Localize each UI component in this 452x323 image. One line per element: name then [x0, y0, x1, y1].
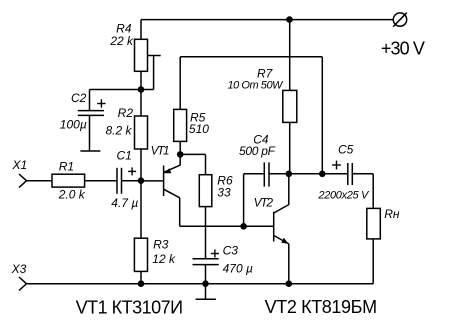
label R2 value — [105, 106, 133, 138]
capacitor C5 — [348, 163, 353, 185]
svg-text:VT2 КТ819БМ: VT2 КТ819БМ — [265, 297, 378, 317]
label R5 value — [189, 110, 209, 136]
svg-text:X3: X3 — [11, 262, 27, 276]
transistor VT2 (NPN) base bar — [273, 212, 275, 242]
label R4 value — [109, 21, 134, 48]
caption VT1 type — [76, 297, 184, 317]
wire C5 to Rn — [352, 174, 373, 209]
svg-text:VT2: VT2 — [254, 195, 274, 209]
wire R5 bottom lead — [179, 141, 181, 154]
wire C4 branch — [244, 174, 265, 227]
svg-text:4.7 µ: 4.7 µ — [111, 196, 138, 210]
capacitor C3 — [193, 259, 219, 265]
label X3 — [11, 262, 27, 276]
node junction VT1 collector/C4/VT2 base — [240, 223, 247, 230]
svg-text:500 pF: 500 pF — [239, 144, 276, 158]
svg-text:470 µ: 470 µ — [223, 261, 253, 275]
wire R6 bottom lead — [205, 207, 207, 259]
wire R7 top lead — [289, 20, 291, 91]
wire R2 top lead — [140, 90, 142, 117]
wire C2 branch — [90, 90, 142, 111]
terminal X3 input — [19, 277, 27, 291]
svg-text:510: 510 — [189, 122, 209, 136]
resistor R7 — [283, 90, 297, 122]
wire VT2 base — [244, 225, 274, 227]
transistor VT2 emitter arrow — [281, 238, 288, 244]
wire R3 bottom lead — [140, 271, 142, 283]
transistor VT2 emitter lead — [274, 235, 289, 283]
wire output node line — [289, 173, 348, 175]
resistor R1 — [52, 174, 85, 187]
node junction R7/VT2 collector on output line — [286, 171, 293, 178]
wire VT1 collector to VT2 base — [180, 198, 244, 227]
svg-text:R2: R2 — [118, 106, 134, 120]
label C1 value — [111, 148, 138, 210]
node junction R7 top on +30V rail — [286, 16, 293, 23]
svg-text:2200x25 V: 2200x25 V — [317, 189, 370, 201]
wire ground rail — [27, 283, 374, 285]
wire R7 bottom lead — [289, 122, 291, 173]
wire +30V top rail — [141, 19, 393, 21]
label C4 value — [239, 133, 276, 158]
ground symbol — [196, 284, 216, 300]
wire X1 to R1 — [27, 180, 53, 182]
label VT1 — [151, 144, 170, 158]
wire Rn bottom lead — [372, 239, 374, 284]
svg-text:C3: C3 — [223, 244, 239, 258]
resistor R3 — [134, 238, 147, 271]
wire R3 top lead — [140, 181, 142, 239]
wire R5 top to output node — [180, 57, 322, 174]
label R3 value — [152, 238, 176, 266]
wire emitter node to R6 — [180, 154, 205, 174]
capacitor C4 — [264, 162, 269, 186]
svg-text:C2: C2 — [71, 91, 87, 105]
svg-text:22 k: 22 k — [109, 34, 134, 48]
node junction C3/ground on rail — [202, 280, 209, 287]
node junction R5 wire on output line — [319, 171, 326, 178]
capacitor C2 — [78, 111, 104, 151]
svg-text:33: 33 — [217, 185, 231, 199]
label C1 plus — [128, 167, 136, 175]
label +30 V — [381, 38, 425, 58]
resistor R6 — [199, 175, 212, 207]
label R7 value — [228, 67, 285, 92]
svg-text:R1: R1 — [59, 159, 74, 173]
node junction VT2 emitter on ground rail — [286, 280, 293, 287]
wire C4 to output node — [269, 173, 289, 175]
node junction R4/R2/C2 — [138, 86, 145, 93]
label C2 plus — [97, 99, 105, 107]
label C5 value — [317, 142, 370, 201]
caption VT2 type — [265, 297, 378, 317]
transistor VT1 collector lead — [164, 189, 180, 198]
label C3 plus — [211, 250, 219, 258]
node junction C1/R2/R3/VT1 base — [138, 177, 145, 184]
label X1 — [12, 158, 28, 172]
transistor VT1 (PNP) base bar — [163, 166, 165, 197]
terminal X1 input — [19, 174, 27, 188]
label C5 plus — [332, 161, 341, 170]
transistor VT2 collector lead — [274, 174, 289, 213]
svg-text:R3: R3 — [153, 238, 169, 252]
wire C1 to base node — [122, 180, 141, 182]
resistor R4 (with tap) — [135, 39, 161, 89]
label VT2 — [254, 195, 274, 209]
svg-text:VT1 КТ3107И: VT1 КТ3107И — [76, 297, 184, 317]
capacitor C1 — [117, 168, 122, 194]
svg-text:Rн: Rн — [384, 207, 400, 221]
wire R2 bottom lead — [140, 149, 142, 181]
terminal +30V output — [393, 13, 407, 27]
svg-text:X1: X1 — [12, 158, 28, 172]
wire C3 bottom lead — [205, 265, 207, 284]
node junction VT1 emitter/R5/R6 — [177, 151, 184, 158]
svg-text:100µ: 100µ — [60, 118, 87, 132]
svg-text:10 Om 50W: 10 Om 50W — [228, 79, 285, 91]
resistor Rn (load) — [367, 208, 381, 239]
svg-text:8.2 k: 8.2 k — [105, 124, 132, 138]
svg-text:2.0 k: 2.0 k — [58, 187, 86, 201]
label C2 value — [60, 91, 87, 132]
label R1 value — [58, 159, 86, 201]
node junction R3 on ground rail — [138, 280, 145, 287]
wire R4 bottom lead — [140, 71, 142, 89]
transistor VT1 emitter lead — [164, 154, 181, 172]
wire VT1 base — [141, 180, 164, 182]
resistor R5 — [174, 109, 187, 141]
svg-text:C1: C1 — [117, 148, 132, 162]
svg-text:C5: C5 — [338, 142, 354, 156]
label Rn — [384, 207, 400, 221]
transistor VT1 emitter arrow — [164, 168, 171, 173]
resistor R2 — [135, 116, 148, 149]
wire R1 to C1 — [85, 180, 118, 182]
wire R4 top lead — [140, 20, 142, 40]
label C3 value — [223, 244, 253, 276]
svg-text:VT1: VT1 — [151, 144, 170, 158]
svg-text:12 k: 12 k — [152, 252, 176, 266]
label R6 value — [217, 173, 233, 199]
svg-text:+30 V: +30 V — [381, 38, 425, 58]
